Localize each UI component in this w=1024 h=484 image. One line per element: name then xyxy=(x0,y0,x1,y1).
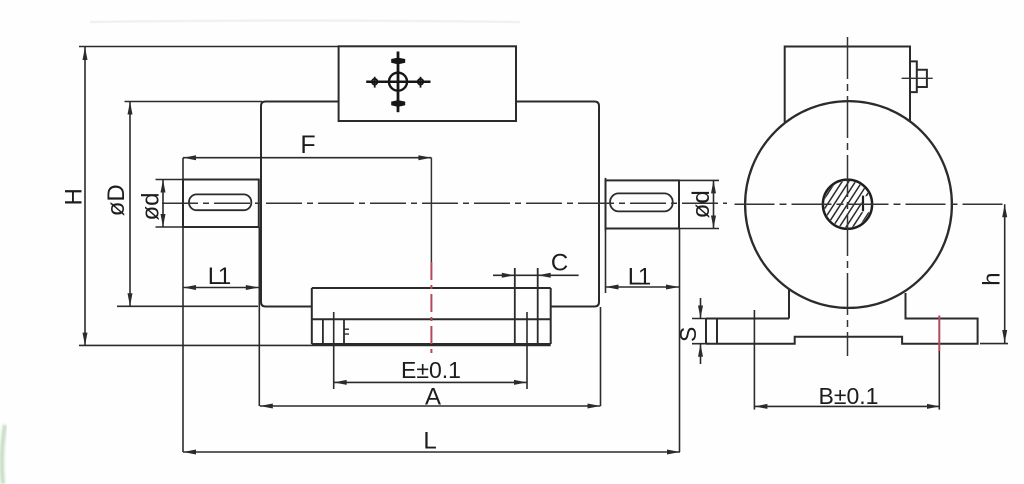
foot bolt slot right (extends up to C) xyxy=(515,268,538,344)
right shaft xyxy=(606,180,680,228)
centerline end view vertical xyxy=(847,37,849,356)
end view terminal box xyxy=(785,47,910,123)
dim H line xyxy=(84,47,86,346)
B ext left xyxy=(753,310,755,410)
ext A left / L1 right xyxy=(258,227,260,406)
cable gland xyxy=(910,61,927,92)
H arrows xyxy=(83,47,88,60)
dim L1 left line xyxy=(183,287,259,289)
centerline end view horizontal xyxy=(735,203,1008,205)
svg-text:H: H xyxy=(60,188,87,205)
left keyway xyxy=(189,194,251,210)
F arrows xyxy=(183,155,196,160)
L1 right arrows xyxy=(606,285,619,290)
svg-text:L1: L1 xyxy=(628,264,652,291)
A arrows xyxy=(260,404,273,409)
shaft section hatching xyxy=(812,167,882,242)
shaft keyway notch clear xyxy=(862,196,872,212)
h ext bottom xyxy=(980,343,1008,345)
svg-text:L1: L1 xyxy=(208,263,232,290)
svg-text:F: F xyxy=(300,131,315,159)
crosshair symbol on terminal box xyxy=(366,52,430,113)
left shaft xyxy=(183,180,259,228)
F drop line to foot center xyxy=(430,158,432,262)
dim S lines xyxy=(700,298,702,364)
svg-text:øD: øD xyxy=(103,184,130,216)
Od left ext xyxy=(156,180,184,228)
svg-text:S: S xyxy=(675,327,701,342)
svg-text:h: h xyxy=(979,272,1006,285)
dim Od right line xyxy=(713,180,715,228)
red extension segment right view xyxy=(938,316,940,352)
dim B line xyxy=(754,405,940,407)
shaft keyway notch xyxy=(862,196,864,212)
A ext right xyxy=(600,307,602,406)
slot ticks xyxy=(344,329,349,334)
dim L line xyxy=(183,451,680,453)
dim F line xyxy=(183,157,431,159)
svg-text:B±0.1: B±0.1 xyxy=(819,383,879,409)
end view circle xyxy=(745,101,952,308)
L arrows xyxy=(183,450,196,455)
svg-text:E±0.1: E±0.1 xyxy=(401,357,461,383)
dim A line xyxy=(260,405,601,407)
dim E line xyxy=(334,381,527,383)
motor body outline xyxy=(261,102,599,307)
svg-text:ød: ød xyxy=(688,190,715,218)
L1 left arrows xyxy=(183,285,196,290)
arrows xyxy=(83,47,1008,455)
OD ext bottom xyxy=(117,305,258,307)
dim Od left line xyxy=(162,180,164,228)
B ext right dark part xyxy=(938,351,940,410)
L ext right xyxy=(679,229,681,453)
L1 right ext left xyxy=(605,230,607,293)
OD ext top xyxy=(125,101,263,103)
Od right ext xyxy=(679,180,719,228)
C arrows (outside) xyxy=(502,273,515,278)
end view foot xyxy=(706,289,978,344)
svg-text:L: L xyxy=(423,428,436,455)
H ext bottom xyxy=(79,344,551,346)
gland centerline xyxy=(902,77,933,79)
red centerline through foot xyxy=(430,262,432,355)
H ext top xyxy=(79,46,339,48)
foot bolt slot left xyxy=(323,319,344,344)
dim OD line xyxy=(129,102,131,307)
Od left arrows xyxy=(161,180,166,193)
svg-text:A: A xyxy=(425,384,441,411)
E ext lines xyxy=(334,312,527,389)
S arrows (outside) xyxy=(698,306,703,319)
B arrows xyxy=(754,404,767,409)
dim h line xyxy=(1004,204,1006,343)
dim S ext xyxy=(692,319,709,344)
dim L1 right line xyxy=(606,286,680,288)
green artifact bottom-left xyxy=(2,425,5,484)
faint top smudge xyxy=(90,21,520,23)
shaft circle xyxy=(823,180,872,229)
Od right arrows xyxy=(711,180,716,193)
right keyway xyxy=(610,193,673,211)
E arrows xyxy=(334,380,347,385)
centerline left view xyxy=(162,202,727,204)
svg-text:ød: ød xyxy=(137,192,164,220)
terminal box xyxy=(339,46,516,121)
dim C line xyxy=(493,274,579,276)
svg-text:C: C xyxy=(551,250,568,277)
L ext left xyxy=(182,158,184,452)
h arrows xyxy=(1002,204,1007,217)
foot block xyxy=(312,288,551,344)
OD arrows xyxy=(128,102,133,115)
